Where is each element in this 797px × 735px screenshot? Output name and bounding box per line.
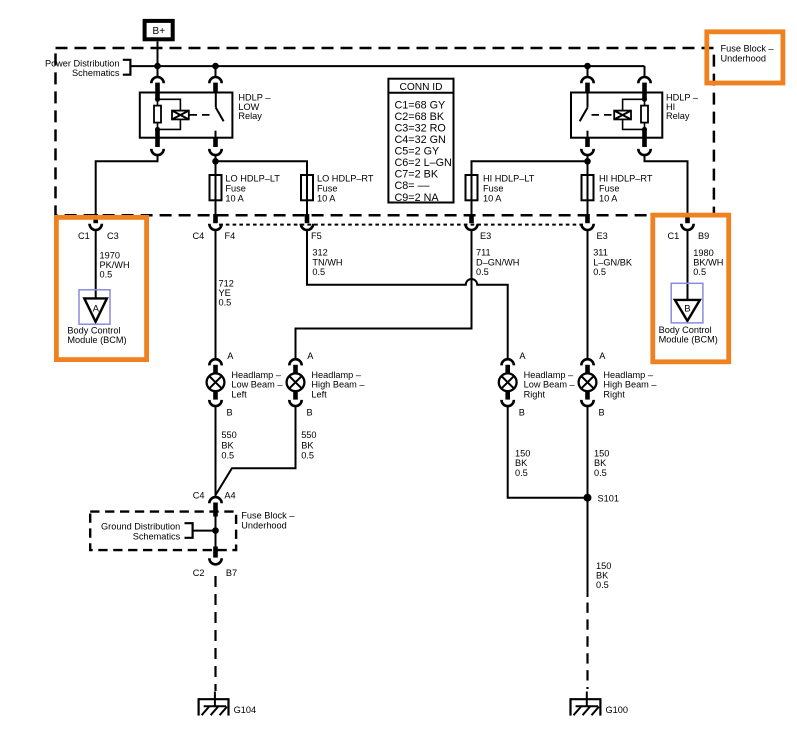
svg-text:Left: Left	[231, 389, 247, 399]
svg-text:E3: E3	[597, 231, 608, 241]
svg-text:0.5: 0.5	[594, 468, 607, 478]
svg-text:A: A	[307, 351, 314, 361]
svg-text:B: B	[227, 408, 233, 418]
svg-text:High Beam –: High Beam –	[311, 380, 365, 390]
svg-text:A: A	[227, 351, 234, 361]
svg-text:C1=68 GY: C1=68 GY	[395, 100, 446, 112]
svg-text:BK: BK	[596, 570, 609, 580]
svg-text:E3: E3	[480, 231, 491, 241]
svg-text:Underhood: Underhood	[241, 521, 286, 531]
svg-text:Headlamp –: Headlamp –	[231, 370, 281, 380]
svg-text:Schematics: Schematics	[133, 531, 181, 541]
svg-text:0.5: 0.5	[219, 298, 232, 308]
svg-text:BK: BK	[221, 440, 234, 450]
svg-text:PK/WH: PK/WH	[100, 260, 130, 270]
svg-text:BK: BK	[301, 440, 314, 450]
svg-text:HI HDLP–LT: HI HDLP–LT	[483, 174, 535, 184]
svg-text:C7=2 BK: C7=2 BK	[395, 169, 439, 181]
svg-text:BK: BK	[594, 458, 607, 468]
svg-text:Ground Distribution: Ground Distribution	[101, 521, 180, 531]
svg-text:TN/WH: TN/WH	[312, 257, 342, 267]
svg-text:B9: B9	[698, 231, 709, 241]
svg-text:Fuse: Fuse	[599, 184, 619, 194]
svg-text:0.5: 0.5	[515, 468, 528, 478]
svg-text:C1: C1	[668, 231, 680, 241]
svg-text:10 A: 10 A	[599, 194, 618, 204]
svg-text:Fuse: Fuse	[483, 184, 503, 194]
svg-text:Module (BCM): Module (BCM)	[67, 335, 126, 345]
svg-text:C4: C4	[193, 231, 205, 241]
svg-text:A4: A4	[224, 490, 235, 500]
svg-text:150: 150	[515, 449, 530, 459]
svg-text:F4: F4	[225, 231, 236, 241]
svg-text:Headlamp –: Headlamp –	[603, 370, 653, 380]
svg-text:C8= ––: C8= ––	[395, 180, 430, 192]
svg-text:LO HDLP–LT: LO HDLP–LT	[225, 174, 280, 184]
svg-text:A: A	[519, 351, 526, 361]
svg-text:0.5: 0.5	[312, 267, 325, 277]
svg-text:Right: Right	[524, 389, 546, 399]
svg-text:S101: S101	[598, 494, 619, 504]
svg-text:0.5: 0.5	[596, 580, 609, 590]
svg-text:B: B	[307, 408, 313, 418]
svg-text:Fuse Block –: Fuse Block –	[241, 511, 295, 521]
svg-text:YE: YE	[219, 288, 231, 298]
svg-text:Relay: Relay	[238, 111, 262, 121]
svg-text:Low Beam –: Low Beam –	[231, 380, 283, 390]
svg-text:712: 712	[219, 278, 234, 288]
svg-text:1980: 1980	[693, 248, 713, 258]
svg-text:10 A: 10 A	[317, 194, 336, 204]
svg-text:BK/WH: BK/WH	[693, 258, 723, 268]
svg-text:C2=68 BK: C2=68 BK	[395, 111, 445, 123]
svg-text:Underhood: Underhood	[721, 53, 766, 63]
svg-text:D–GN/WH: D–GN/WH	[476, 257, 519, 267]
svg-text:F5: F5	[311, 231, 322, 241]
svg-text:C3: C3	[107, 231, 119, 241]
svg-text:150: 150	[596, 561, 611, 571]
svg-text:B: B	[684, 303, 690, 314]
svg-text:C4=32 GN: C4=32 GN	[395, 134, 446, 146]
svg-text:C2: C2	[193, 568, 205, 578]
svg-text:0.5: 0.5	[593, 267, 606, 277]
svg-text:312: 312	[312, 248, 327, 258]
svg-text:Fuse: Fuse	[317, 184, 337, 194]
svg-text:10 A: 10 A	[483, 194, 502, 204]
svg-text:Power Distribution: Power Distribution	[45, 58, 120, 68]
svg-text:B: B	[599, 408, 605, 418]
svg-text:150: 150	[594, 449, 609, 459]
svg-text:High Beam –: High Beam –	[603, 380, 657, 390]
svg-text:550: 550	[221, 430, 236, 440]
svg-text:CONN ID: CONN ID	[399, 82, 442, 93]
svg-text:Low Beam –: Low Beam –	[524, 380, 576, 390]
svg-text:A: A	[93, 303, 100, 314]
svg-text:0.5: 0.5	[693, 267, 706, 277]
svg-text:Schematics: Schematics	[72, 68, 120, 78]
svg-text:C9=2 NA: C9=2 NA	[395, 192, 440, 204]
svg-text:10 A: 10 A	[225, 194, 244, 204]
svg-text:LO HDLP–RT: LO HDLP–RT	[317, 174, 374, 184]
svg-text:L–GN/BK: L–GN/BK	[593, 257, 633, 267]
svg-text:0.5: 0.5	[100, 270, 113, 280]
svg-text:C1: C1	[78, 231, 90, 241]
svg-text:0.5: 0.5	[476, 267, 489, 277]
svg-text:C5=2 GY: C5=2 GY	[395, 146, 440, 158]
svg-text:0.5: 0.5	[301, 450, 314, 460]
svg-text:711: 711	[476, 248, 491, 258]
svg-text:550: 550	[301, 430, 316, 440]
svg-text:B: B	[519, 408, 525, 418]
svg-text:C4: C4	[193, 490, 205, 500]
svg-text:C6=2 L–GN: C6=2 L–GN	[395, 157, 452, 169]
svg-text:A: A	[599, 351, 606, 361]
svg-text:1970: 1970	[100, 250, 120, 260]
svg-text:Module (BCM): Module (BCM)	[659, 334, 718, 344]
svg-text:G100: G100	[606, 705, 628, 715]
svg-text:BK: BK	[515, 458, 528, 468]
svg-text:C3=32 RO: C3=32 RO	[395, 123, 446, 135]
svg-text:Left: Left	[311, 389, 327, 399]
svg-text:311: 311	[593, 248, 608, 258]
svg-text:Right: Right	[603, 389, 625, 399]
svg-text:Headlamp –: Headlamp –	[524, 370, 574, 380]
svg-text:Headlamp –: Headlamp –	[311, 370, 361, 380]
svg-text:B+: B+	[153, 26, 166, 37]
svg-text:HI HDLP–RT: HI HDLP–RT	[599, 174, 653, 184]
svg-text:Fuse: Fuse	[225, 184, 245, 194]
svg-text:Fuse Block –: Fuse Block –	[721, 44, 775, 54]
svg-text:G104: G104	[234, 705, 256, 715]
svg-text:B7: B7	[226, 568, 237, 578]
svg-text:0.5: 0.5	[221, 450, 234, 460]
svg-text:Relay: Relay	[666, 111, 690, 121]
